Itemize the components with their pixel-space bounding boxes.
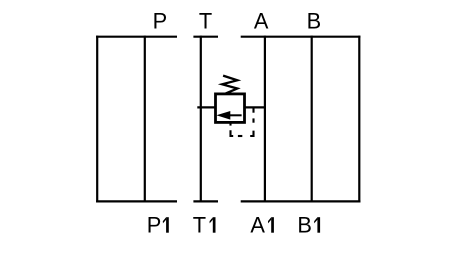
pilot line dash: bottom middle: [238, 135, 242, 137]
wire: top rail T cap: [193, 36, 218, 38]
pilot line dash: right vertical top: [252, 108, 254, 113]
svg-text:B: B: [307, 8, 322, 33]
svg-text:T: T: [193, 213, 206, 238]
wire: B line vertical: [311, 36, 313, 203]
wire: T line vertical: [200, 36, 202, 203]
pilot line dash: stub below valve: [229, 122, 231, 125]
wire: P line left vertical: [96, 36, 98, 203]
svg-text:P: P: [153, 8, 168, 33]
svg-text:A: A: [250, 213, 265, 238]
pilot line dash: right vertical middle: [252, 118, 254, 122]
wire: A line vertical: [264, 36, 266, 203]
wire: top rail A-B segment: [241, 36, 361, 38]
wire: bottom rail P1 segment: [96, 200, 177, 202]
port label P1: [147, 213, 169, 238]
wire: right edge vertical: [358, 36, 360, 203]
wire: P line right vertical: [144, 36, 146, 203]
port label A1: [250, 213, 274, 238]
svg-text:P: P: [147, 213, 162, 238]
wire: valve inlet from T line: [197, 106, 215, 108]
pilot line dash: lower-right corner: [250, 131, 253, 136]
wire: bottom rail T1 cap: [193, 200, 218, 202]
port label T1: [193, 213, 216, 238]
svg-text:A: A: [254, 8, 269, 33]
wire: valve outlet to A line: [245, 106, 265, 108]
svg-text:B: B: [297, 213, 312, 238]
wire: bottom rail A1-B1 segment: [241, 200, 361, 202]
valve flow arrow: [216, 111, 241, 120]
svg-text:T: T: [199, 8, 212, 33]
valve spring: [222, 76, 237, 94]
port label B1: [297, 213, 320, 238]
wire: top rail P segment: [96, 36, 177, 38]
pilot line dash: lower-left corner: [231, 130, 234, 136]
relief valve V1 body: [216, 94, 245, 123]
